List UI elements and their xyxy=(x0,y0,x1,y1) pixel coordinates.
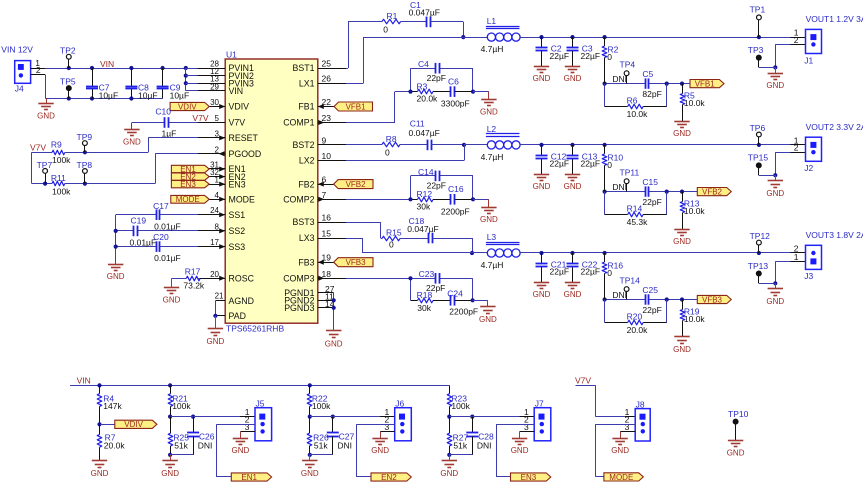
svg-text:GND: GND xyxy=(37,111,55,120)
svg-text:0: 0 xyxy=(607,52,612,62)
svg-text:GND: GND xyxy=(161,469,179,478)
svg-text:U1: U1 xyxy=(226,50,237,60)
svg-text:R3: R3 xyxy=(417,81,428,91)
svg-text:EN2: EN2 xyxy=(381,473,397,482)
svg-text:0.01µF: 0.01µF xyxy=(154,253,181,263)
svg-text:VOUT1 1.2V 3A: VOUT1 1.2V 3A xyxy=(806,14,863,24)
svg-text:DNI: DNI xyxy=(612,290,627,300)
svg-text:3: 3 xyxy=(524,422,529,432)
svg-text:GND: GND xyxy=(673,129,691,138)
svg-text:EN3: EN3 xyxy=(180,180,196,189)
svg-text:100k: 100k xyxy=(451,401,470,411)
svg-text:C10: C10 xyxy=(155,107,171,117)
svg-text:3: 3 xyxy=(625,422,630,432)
svg-text:R1: R1 xyxy=(387,11,398,21)
svg-text:25: 25 xyxy=(322,59,332,69)
svg-text:0.047µF: 0.047µF xyxy=(409,7,440,17)
svg-text:45.3k: 45.3k xyxy=(627,217,649,227)
svg-text:R9: R9 xyxy=(51,140,62,150)
svg-text:GND: GND xyxy=(301,469,319,478)
svg-text:DNI: DNI xyxy=(612,182,627,192)
svg-text:23: 23 xyxy=(322,113,332,123)
svg-text:GND: GND xyxy=(371,446,389,455)
svg-text:GND: GND xyxy=(480,215,498,224)
svg-text:22pF: 22pF xyxy=(642,305,661,315)
svg-text:TP9: TP9 xyxy=(77,132,93,142)
svg-text:2: 2 xyxy=(794,35,799,45)
svg-text:C20: C20 xyxy=(153,232,169,242)
svg-text:TP12: TP12 xyxy=(750,231,771,241)
svg-text:73.2k: 73.2k xyxy=(183,281,205,291)
svg-text:GND: GND xyxy=(611,446,629,455)
svg-text:FB3: FB3 xyxy=(298,257,314,267)
svg-text:51k: 51k xyxy=(453,440,467,450)
svg-text:VIN: VIN xyxy=(100,59,114,69)
svg-text:2200pF: 2200pF xyxy=(449,307,478,317)
svg-text:GND: GND xyxy=(440,469,458,478)
svg-text:0: 0 xyxy=(383,24,388,34)
svg-text:GND: GND xyxy=(766,297,784,306)
svg-text:5: 5 xyxy=(215,114,220,123)
svg-text:R11: R11 xyxy=(51,173,66,183)
svg-text:100k: 100k xyxy=(52,155,71,165)
svg-text:VFB1: VFB1 xyxy=(695,80,716,89)
svg-text:J1: J1 xyxy=(804,55,813,65)
svg-text:TP3: TP3 xyxy=(748,45,764,55)
svg-text:L2: L2 xyxy=(487,124,497,134)
svg-text:2: 2 xyxy=(794,244,799,254)
svg-text:20.0k: 20.0k xyxy=(627,325,649,335)
svg-text:1: 1 xyxy=(215,176,220,185)
svg-text:0: 0 xyxy=(607,160,612,170)
svg-text:MODE: MODE xyxy=(609,473,633,482)
svg-text:EN1: EN1 xyxy=(241,473,257,482)
svg-text:0: 0 xyxy=(607,268,612,278)
svg-text:15: 15 xyxy=(322,229,332,239)
svg-text:R12: R12 xyxy=(417,189,433,199)
svg-text:J3: J3 xyxy=(804,271,813,281)
svg-text:30: 30 xyxy=(210,98,219,107)
svg-text:29: 29 xyxy=(210,82,219,91)
svg-text:VOUT3 1.8V 2A: VOUT3 1.8V 2A xyxy=(806,230,863,240)
svg-text:10: 10 xyxy=(322,151,332,161)
svg-text:100k: 100k xyxy=(312,401,331,411)
svg-text:10µF: 10µF xyxy=(138,90,158,100)
svg-text:PAD: PAD xyxy=(229,311,246,321)
svg-text:COMP2: COMP2 xyxy=(283,195,314,205)
svg-text:R6: R6 xyxy=(627,96,638,106)
svg-text:BST3: BST3 xyxy=(292,217,314,227)
svg-text:GND: GND xyxy=(533,74,551,83)
svg-text:V7V: V7V xyxy=(192,113,208,123)
svg-text:0.01µF: 0.01µF xyxy=(154,221,181,231)
svg-text:22µF: 22µF xyxy=(550,51,570,61)
svg-text:C5: C5 xyxy=(642,69,653,79)
svg-text:10.0k: 10.0k xyxy=(684,98,706,108)
svg-text:GND: GND xyxy=(766,189,784,198)
svg-text:GND: GND xyxy=(673,345,691,354)
svg-text:GND: GND xyxy=(564,182,582,191)
svg-text:GND: GND xyxy=(533,290,551,299)
svg-text:C23: C23 xyxy=(419,269,435,279)
svg-text:1µF: 1µF xyxy=(162,128,177,138)
svg-text:100k: 100k xyxy=(52,186,71,196)
svg-text:FB1: FB1 xyxy=(298,102,314,112)
svg-text:3: 3 xyxy=(245,422,250,432)
svg-text:C6: C6 xyxy=(448,76,459,86)
svg-text:0.047µF: 0.047µF xyxy=(407,224,438,234)
svg-text:PGOOD: PGOOD xyxy=(229,149,262,159)
svg-text:4: 4 xyxy=(215,191,220,200)
svg-text:TP6: TP6 xyxy=(750,123,766,133)
svg-text:0.047µF: 0.047µF xyxy=(409,128,440,138)
svg-text:22µF: 22µF xyxy=(581,267,601,277)
svg-text:TP7: TP7 xyxy=(37,160,53,170)
svg-text:GND: GND xyxy=(91,469,109,478)
svg-text:30k: 30k xyxy=(417,201,431,211)
svg-text:C4: C4 xyxy=(418,59,429,69)
svg-text:COMP1: COMP1 xyxy=(283,118,314,128)
svg-text:0: 0 xyxy=(389,240,394,250)
svg-text:20: 20 xyxy=(210,270,219,279)
svg-text:C25: C25 xyxy=(642,285,658,295)
svg-text:22µF: 22µF xyxy=(581,159,601,169)
svg-text:R18: R18 xyxy=(417,290,433,300)
svg-text:TP2: TP2 xyxy=(60,46,76,56)
svg-text:147k: 147k xyxy=(103,401,122,411)
svg-text:GND: GND xyxy=(511,446,529,455)
svg-text:26: 26 xyxy=(322,74,332,84)
svg-text:51k: 51k xyxy=(314,440,328,450)
svg-text:AGND: AGND xyxy=(229,296,254,306)
svg-text:22µF: 22µF xyxy=(581,51,601,61)
svg-text:EN3: EN3 xyxy=(521,473,537,482)
svg-text:GND: GND xyxy=(564,74,582,83)
svg-text:TP8: TP8 xyxy=(77,160,93,170)
svg-text:VFB2: VFB2 xyxy=(702,188,723,197)
svg-text:GND: GND xyxy=(533,182,551,191)
svg-text:3: 3 xyxy=(384,422,389,432)
svg-text:C17: C17 xyxy=(153,201,169,211)
svg-text:2: 2 xyxy=(794,143,799,153)
svg-text:TP4: TP4 xyxy=(620,60,636,70)
svg-text:VFB1: VFB1 xyxy=(346,102,367,111)
svg-text:DNI: DNI xyxy=(337,440,352,450)
svg-text:TP1: TP1 xyxy=(750,4,766,14)
svg-text:C15: C15 xyxy=(642,177,658,187)
svg-text:VOUT2 3.3V 2A: VOUT2 3.3V 2A xyxy=(806,122,863,132)
svg-text:FB2: FB2 xyxy=(298,179,314,189)
svg-text:PGND3: PGND3 xyxy=(284,303,314,313)
svg-text:VDIV: VDIV xyxy=(229,102,250,112)
svg-text:22µF: 22µF xyxy=(550,267,570,277)
svg-text:VDIV: VDIV xyxy=(124,420,143,429)
svg-text:R20: R20 xyxy=(627,312,643,322)
svg-text:10.0k: 10.0k xyxy=(627,109,649,119)
svg-text:0: 0 xyxy=(385,147,390,157)
svg-text:2: 2 xyxy=(36,65,41,75)
svg-text:C14: C14 xyxy=(418,167,434,177)
svg-text:100k: 100k xyxy=(172,401,191,411)
svg-text:10µF: 10µF xyxy=(170,90,190,100)
svg-text:GND: GND xyxy=(673,237,691,246)
svg-text:J7: J7 xyxy=(535,399,544,409)
svg-text:J5: J5 xyxy=(256,399,265,409)
svg-text:C16: C16 xyxy=(448,184,464,194)
svg-text:GND: GND xyxy=(727,449,745,458)
svg-text:3300pF: 3300pF xyxy=(441,99,470,109)
svg-text:J2: J2 xyxy=(804,163,813,173)
svg-text:V7V: V7V xyxy=(30,142,46,152)
svg-text:9: 9 xyxy=(322,135,327,145)
svg-text:10µF: 10µF xyxy=(99,90,119,100)
svg-text:GND: GND xyxy=(479,315,497,324)
svg-text:DNI: DNI xyxy=(198,440,213,450)
svg-text:GND: GND xyxy=(107,272,125,281)
svg-text:VIN: VIN xyxy=(77,376,91,386)
svg-text:SS3: SS3 xyxy=(229,242,246,252)
svg-text:2200pF: 2200pF xyxy=(441,206,470,216)
svg-text:MODE: MODE xyxy=(229,195,256,205)
svg-text:BST1: BST1 xyxy=(292,63,314,73)
svg-text:VFB2: VFB2 xyxy=(346,180,367,189)
svg-text:R8: R8 xyxy=(386,134,397,144)
svg-text:LX2: LX2 xyxy=(299,156,315,166)
svg-text:COMP3: COMP3 xyxy=(283,274,314,284)
svg-text:4.7µH: 4.7µH xyxy=(481,152,504,162)
svg-text:C19: C19 xyxy=(131,216,147,226)
svg-text:24: 24 xyxy=(210,206,219,215)
svg-text:17: 17 xyxy=(210,238,219,247)
svg-text:22pF: 22pF xyxy=(427,73,446,83)
svg-text:TP13: TP13 xyxy=(748,261,769,271)
svg-text:TPS65261RHB: TPS65261RHB xyxy=(226,324,284,334)
svg-text:VIN 12V: VIN 12V xyxy=(1,45,33,55)
svg-text:82pF: 82pF xyxy=(642,89,661,99)
svg-text:TP15: TP15 xyxy=(748,153,769,163)
svg-text:GND: GND xyxy=(325,340,343,349)
svg-text:VFB3: VFB3 xyxy=(702,295,723,304)
svg-text:MODE: MODE xyxy=(176,195,200,204)
svg-text:10.0k: 10.0k xyxy=(684,314,706,324)
svg-text:BST2: BST2 xyxy=(292,140,314,150)
svg-text:22pF: 22pF xyxy=(642,197,661,207)
svg-text:LX3: LX3 xyxy=(299,233,315,243)
svg-text:GND: GND xyxy=(766,81,784,90)
svg-text:20.0k: 20.0k xyxy=(104,440,126,450)
svg-text:L3: L3 xyxy=(487,232,497,242)
svg-text:GND: GND xyxy=(163,296,181,305)
svg-text:GND: GND xyxy=(480,107,498,116)
svg-text:21: 21 xyxy=(215,292,224,301)
svg-text:SS1: SS1 xyxy=(229,210,246,220)
svg-text:2: 2 xyxy=(215,145,220,154)
svg-text:GND: GND xyxy=(232,446,250,455)
svg-text:GND: GND xyxy=(564,290,582,299)
svg-text:GND: GND xyxy=(123,137,141,146)
svg-text:51k: 51k xyxy=(174,440,188,450)
svg-text:TP14: TP14 xyxy=(620,276,641,286)
svg-text:20.0k: 20.0k xyxy=(417,94,439,104)
svg-text:L1: L1 xyxy=(487,16,497,26)
svg-text:C24: C24 xyxy=(447,288,463,298)
svg-text:8: 8 xyxy=(215,222,220,231)
svg-text:J6: J6 xyxy=(395,399,404,409)
svg-text:VIN: VIN xyxy=(229,86,244,96)
svg-text:J4: J4 xyxy=(15,83,24,93)
svg-text:RESET: RESET xyxy=(229,133,259,143)
svg-text:DNI: DNI xyxy=(477,440,492,450)
svg-text:V7V: V7V xyxy=(229,118,246,128)
svg-text:SS2: SS2 xyxy=(229,226,246,236)
svg-text:TP10: TP10 xyxy=(728,409,749,419)
svg-text:LX1: LX1 xyxy=(299,78,315,88)
svg-text:R14: R14 xyxy=(627,204,643,214)
svg-text:16: 16 xyxy=(322,213,332,223)
svg-text:ROSC: ROSC xyxy=(229,274,255,284)
svg-text:VFB3: VFB3 xyxy=(346,258,367,267)
svg-text:10.0k: 10.0k xyxy=(684,206,706,216)
svg-text:4.7µH: 4.7µH xyxy=(481,260,504,270)
svg-text:DNI: DNI xyxy=(612,74,627,84)
svg-text:22µF: 22µF xyxy=(550,159,570,169)
svg-text:TP11: TP11 xyxy=(620,168,640,178)
svg-text:EN3: EN3 xyxy=(229,179,246,189)
svg-text:30k: 30k xyxy=(417,303,431,313)
svg-text:TP5: TP5 xyxy=(60,77,76,87)
svg-text:J8: J8 xyxy=(636,400,645,410)
svg-text:GND: GND xyxy=(207,337,225,346)
svg-text:VDIV: VDIV xyxy=(178,102,197,111)
svg-text:3: 3 xyxy=(215,129,220,138)
svg-text:R17: R17 xyxy=(185,267,201,277)
svg-text:4.7µH: 4.7µH xyxy=(481,44,504,54)
svg-text:7: 7 xyxy=(322,190,327,200)
svg-text:V7V: V7V xyxy=(575,375,591,385)
svg-text:R15: R15 xyxy=(386,227,402,237)
svg-text:18: 18 xyxy=(322,269,332,279)
